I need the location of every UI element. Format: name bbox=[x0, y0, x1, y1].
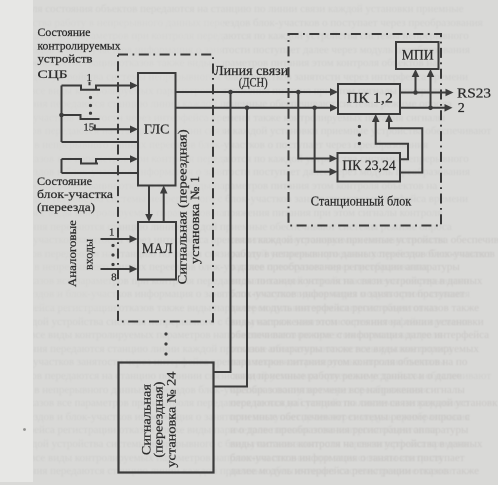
svg-text:Станционный блок: Станционный блок bbox=[311, 194, 412, 209]
svg-text:Состояние: Состояние bbox=[37, 174, 92, 188]
svg-text:ГЛС: ГЛС bbox=[144, 122, 170, 137]
svg-text:МПИ: МПИ bbox=[402, 48, 434, 64]
svg-text:(переезда): (переезда) bbox=[37, 200, 95, 214]
svg-text:ПК 1,2: ПК 1,2 bbox=[347, 91, 393, 107]
svg-text:СЦБ: СЦБ bbox=[38, 67, 68, 81]
svg-text:15: 15 bbox=[83, 122, 95, 134]
svg-text:8: 8 bbox=[111, 272, 117, 284]
svg-text:Аналоговые: Аналоговые bbox=[65, 220, 79, 287]
svg-text:устройств: устройств bbox=[38, 52, 93, 66]
svg-text:установка № 24: установка № 24 bbox=[164, 371, 178, 468]
svg-text:RS23: RS23 bbox=[457, 87, 491, 102]
svg-text:контролируемых: контролируемых bbox=[38, 39, 121, 53]
svg-text:ПК 23,24: ПК 23,24 bbox=[342, 158, 396, 174]
svg-text:1: 1 bbox=[87, 72, 93, 84]
svg-text:блок-участка: блок-участка bbox=[37, 187, 114, 201]
svg-text:Состояние: Состояние bbox=[38, 25, 91, 39]
svg-text:установка № 1: установка № 1 bbox=[188, 176, 202, 264]
svg-text:входы: входы bbox=[82, 239, 96, 270]
svg-text:2: 2 bbox=[458, 101, 465, 116]
svg-text:1: 1 bbox=[109, 227, 115, 239]
svg-text:(переездная): (переездная) bbox=[152, 382, 166, 458]
svg-text:МАЛ: МАЛ bbox=[142, 241, 173, 257]
svg-text:(ДСН): (ДСН) bbox=[239, 75, 268, 90]
